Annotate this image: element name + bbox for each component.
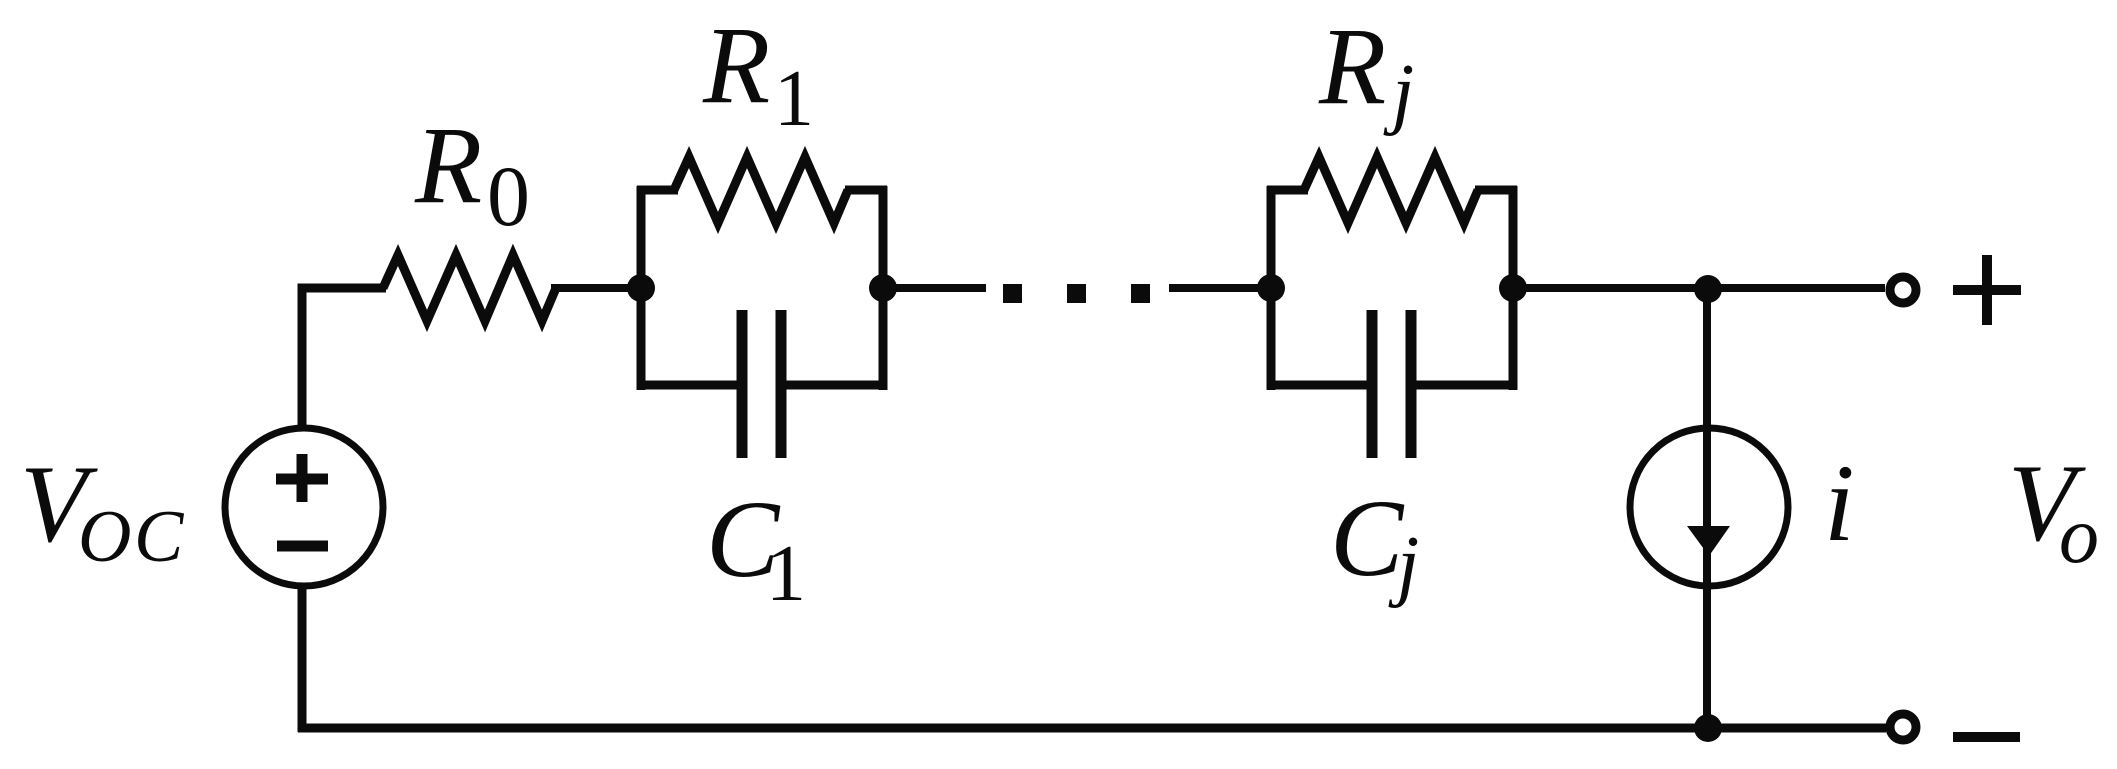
node C dot — [1257, 274, 1285, 302]
RC block 1 frame wires — [637, 186, 887, 390]
RC block j frame wires — [1267, 186, 1517, 390]
svg-text:R: R — [414, 104, 482, 226]
resistor Rj — [1304, 157, 1478, 223]
wire R0 to node A — [551, 284, 641, 292]
node B dot — [869, 274, 897, 302]
voltage source V_OC — [225, 428, 383, 586]
current source i — [1630, 428, 1788, 586]
node A dot — [627, 274, 655, 302]
svg-text:C: C — [1330, 477, 1405, 599]
wire left bottom from source to bottom rail — [298, 587, 307, 732]
label Cj — [1330, 477, 1419, 609]
svg-text:1: 1 — [774, 55, 814, 143]
bottom rail wire — [298, 724, 1886, 733]
wire node D to terminal plus — [1513, 284, 1885, 292]
capacitor C1 — [742, 310, 781, 458]
label R0 — [414, 104, 530, 244]
wire current source branch — [1703, 288, 1711, 732]
svg-text:R: R — [1318, 5, 1386, 127]
svg-text:o: o — [2059, 492, 2099, 580]
node D dot — [1499, 274, 1527, 302]
wire left top from source to R0 — [302, 288, 386, 427]
label Vo — [2008, 442, 2099, 580]
plus sign — [1953, 255, 2021, 325]
terminal minus circle — [1890, 714, 1916, 740]
resistor R0 — [383, 255, 556, 321]
label V_OC — [20, 443, 185, 578]
svg-text:O: O — [78, 496, 131, 578]
junction node F dot on bottom rail — [1694, 714, 1722, 742]
ellipsis dots — [1003, 284, 1150, 303]
svg-text:i: i — [1824, 442, 1855, 564]
label Rj — [1318, 5, 1414, 137]
wire node B to ellipsis — [883, 284, 986, 292]
capacitor Cj — [1372, 310, 1411, 458]
junction node E dot — [1694, 275, 1722, 303]
svg-text:C: C — [134, 496, 185, 578]
svg-text:R: R — [702, 4, 770, 126]
label i — [1824, 442, 1855, 564]
resistor R1 — [674, 157, 848, 223]
terminal plus circle — [1890, 277, 1916, 303]
label C1 — [706, 478, 806, 618]
minus sign — [1953, 732, 2020, 742]
wire ellipsis to node C — [1169, 284, 1271, 292]
label R1 — [702, 4, 814, 143]
svg-text:1: 1 — [766, 530, 806, 618]
svg-text:0: 0 — [487, 148, 530, 244]
